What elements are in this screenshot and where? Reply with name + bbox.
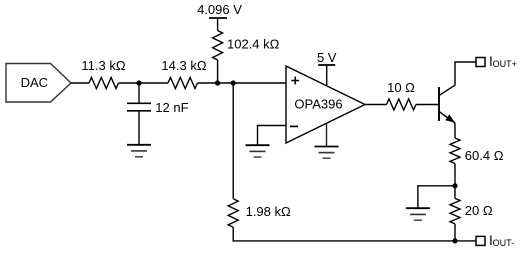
node D (ground junction) [452, 183, 457, 188]
wire 1.98k to bottom rail [233, 227, 455, 241]
svg-text:OUT+: OUT+ [493, 59, 517, 69]
node B (102.4k junction) [215, 80, 220, 85]
svg-text:5 V: 5 V [317, 50, 337, 65]
capacitor C1 12 nF [127, 83, 189, 145]
wire 60.4 to 20 [454, 164, 456, 199]
wire op-amp V- to ground [326, 124, 328, 147]
resistor 10 ohm [387, 80, 417, 110]
wire emitter to 60.4 [454, 123, 456, 138]
svg-text:OPA396: OPA396 [294, 97, 342, 112]
wire inverting input to ground [258, 126, 287, 146]
resistor R2 14.3 k [161, 58, 206, 89]
wire 20 to bottom rail [454, 224, 456, 241]
wire 102.4k to node B [217, 60, 219, 83]
wire R2 to op-amp input [198, 82, 287, 84]
wire R1 to R2 [119, 82, 169, 84]
DAC block [6, 64, 71, 103]
svg-text:12 nF: 12 nF [155, 100, 188, 115]
wire DAC to R1 [71, 82, 89, 84]
svg-text:11.3 kΩ: 11.3 kΩ [81, 58, 125, 73]
svg-text:DAC: DAC [21, 75, 48, 90]
ground (capacitor) [127, 145, 151, 157]
svg-text:60.4 Ω: 60.4 Ω [465, 148, 504, 163]
wire op-amp output to R10 [365, 104, 387, 106]
resistor R1 11.3 k [81, 58, 125, 89]
svg-text:14.3 kΩ: 14.3 kΩ [161, 58, 206, 73]
svg-text:1.98 kΩ: 1.98 kΩ [246, 204, 291, 219]
svg-text:20 Ω: 20 Ω [465, 203, 493, 218]
supply 4.096 V [197, 2, 242, 31]
resistor 60.4 ohm [450, 138, 504, 164]
wire collector to IOUT+ terminal [455, 62, 476, 85]
transistor Q1 [439, 85, 455, 123]
wire node D to ground [418, 186, 455, 208]
ground (emitter divider) [406, 208, 430, 220]
node A (cap junction) [136, 80, 141, 85]
svg-text:10 Ω: 10 Ω [387, 80, 415, 95]
resistor 102.4 k [213, 31, 280, 61]
wire R10 to transistor base [416, 104, 439, 106]
resistor 20 ohm [450, 198, 493, 224]
terminal IOUT+ [476, 54, 517, 69]
terminal IOUT- [476, 233, 514, 248]
wire node C down to 1.98k [232, 83, 234, 199]
node E (bottom rail junction) [452, 238, 457, 243]
resistor 1.98 k [228, 199, 291, 228]
svg-text:OUT-: OUT- [493, 238, 515, 248]
ground (op-amp V-) [315, 147, 339, 159]
ground (inverting input) [246, 145, 270, 157]
svg-text:4.096 V: 4.096 V [197, 2, 242, 17]
op-amp U1 OPA396 [286, 66, 365, 143]
node C (1.98k junction) [231, 80, 236, 85]
wire node E to IOUT- terminal [455, 240, 476, 242]
supply 5 V [317, 50, 337, 86]
svg-text:102.4 kΩ: 102.4 kΩ [227, 37, 280, 52]
